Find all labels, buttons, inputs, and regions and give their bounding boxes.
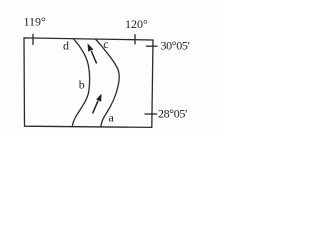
svg-text:119°: 119° [24, 15, 47, 29]
svg-text:d: d [63, 39, 69, 53]
svg-text:28°05′: 28°05′ [158, 107, 188, 121]
svg-text:120°: 120° [125, 17, 148, 31]
svg-text:30°05′: 30°05′ [161, 39, 191, 53]
svg-text:c: c [103, 37, 108, 51]
svg-text:b: b [79, 77, 85, 91]
svg-text:a: a [109, 110, 115, 124]
